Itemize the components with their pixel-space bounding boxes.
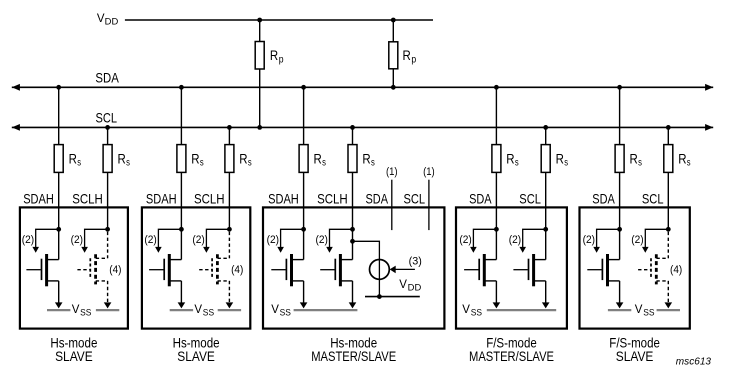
svg-text:(2): (2) <box>509 234 521 246</box>
label VSS device 3 <box>271 304 291 317</box>
transistor Q2 <box>77 232 107 303</box>
svg-text:SLAVE: SLAVE <box>177 348 215 364</box>
svg-text:V: V <box>462 304 470 316</box>
svg-text:s: s <box>77 157 81 169</box>
junction d3 SCLH / bus <box>350 125 355 130</box>
svg-text:SCL: SCL <box>96 110 118 126</box>
svg-text:SS: SS <box>203 307 214 317</box>
wire Rp2 top <box>392 20 394 42</box>
wire SDA bus <box>12 84 713 91</box>
svg-text:s: s <box>564 157 568 169</box>
box device 3 (Hs-mode master/slave) <box>263 207 444 328</box>
svg-text:R: R <box>630 151 638 167</box>
wire Rp2 bottom (joins SDA) <box>392 69 394 88</box>
resistor Rs (d4 SDA) <box>492 145 501 173</box>
resistor Rs (d5 SCL) <box>664 145 673 173</box>
pin label SCL <box>404 191 426 207</box>
label Rs (d5 SDA) <box>630 151 642 169</box>
box device 5 (F/S-mode slave) <box>580 207 690 328</box>
node SDA label <box>95 70 119 86</box>
svg-text:(2): (2) <box>144 234 156 246</box>
svg-text:DD: DD <box>408 282 422 292</box>
box device 4 (F/S-mode master/slave) <box>456 207 567 328</box>
arrow note (2) for Q9 <box>583 229 620 252</box>
resistor Rs (d3 SCLH) <box>348 145 357 173</box>
svg-text:p: p <box>411 54 416 66</box>
svg-text:V: V <box>194 304 202 316</box>
pin label SCL <box>519 191 541 207</box>
ground bar Q1 <box>47 309 70 311</box>
pin label SCL <box>642 191 664 207</box>
svg-text:SS: SS <box>471 307 482 317</box>
svg-text:R: R <box>362 151 370 167</box>
svg-text:SCL: SCL <box>404 191 426 207</box>
junction d1 SCLH / bus <box>105 125 110 130</box>
wire d4 SDA column upper <box>495 87 497 229</box>
wire d3 SCLH column upper <box>352 127 354 229</box>
ground bar device 3 (shared) <box>294 309 358 311</box>
wire branch to current source <box>353 241 380 296</box>
wire d3 SDAH column upper <box>303 87 305 229</box>
resistor Rp1 <box>255 42 264 70</box>
junction d3 SDAH / bus <box>301 85 306 90</box>
transistor Q4 <box>199 232 229 303</box>
wire Rp1 top <box>259 20 261 42</box>
junction d2 SDAH / bus <box>179 85 184 90</box>
svg-text:(4): (4) <box>231 264 243 276</box>
junction dot Q8 drain node <box>543 227 548 232</box>
svg-text:R: R <box>118 151 126 167</box>
label note (4) for Q2 <box>109 264 121 276</box>
svg-text:SDAH: SDAH <box>146 191 177 207</box>
svg-text:SCL: SCL <box>642 191 664 207</box>
arrow note (2) for Q7 <box>459 229 496 252</box>
junction dot Q3 drain node <box>179 227 184 232</box>
pin label SDA <box>469 191 492 207</box>
box device 1 (Hs-mode slave) <box>20 207 128 328</box>
svg-text:MASTER/SLAVE: MASTER/SLAVE <box>469 348 554 364</box>
arrow note (2) for Q2 <box>71 229 108 252</box>
svg-text:SDA: SDA <box>592 191 615 207</box>
node VDD label <box>97 13 119 27</box>
svg-text:s: s <box>638 157 642 169</box>
junction VDD / Rp1 <box>257 18 262 23</box>
label Rs (d2 SCLH) <box>239 151 251 169</box>
svg-text:R: R <box>556 151 564 167</box>
transistor Q7 <box>464 229 496 303</box>
svg-text:SDAH: SDAH <box>23 191 54 207</box>
wire VDD rail <box>125 19 433 21</box>
ground bar Q3 <box>170 309 193 311</box>
junction dot current-source branch <box>350 239 355 244</box>
wire d1 SDAH column upper <box>58 87 60 229</box>
svg-text:R: R <box>270 47 278 63</box>
junction VDD / Rp2 <box>391 18 396 23</box>
resistor Rs (d1 SCLH) <box>103 145 112 173</box>
ground arrow Q1 <box>55 302 63 308</box>
label note (1) over SCL stub <box>423 166 435 178</box>
svg-text:SS: SS <box>280 307 291 317</box>
resistor Rs (d4 SCL) <box>541 145 550 173</box>
svg-text:SDA: SDA <box>95 70 119 86</box>
svg-text:SCLH: SCLH <box>72 191 103 207</box>
label VSS device 5 <box>635 304 655 317</box>
label Rs (d3 SDAH) <box>314 151 326 169</box>
junction dot Q2 drain node <box>105 227 110 232</box>
svg-text:(1): (1) <box>423 166 435 178</box>
junction d5 SCL / bus <box>666 125 671 130</box>
svg-text:SDA: SDA <box>469 191 492 207</box>
svg-text:MASTER/SLAVE: MASTER/SLAVE <box>311 348 396 364</box>
svg-text:SDAH: SDAH <box>268 191 299 207</box>
arrow note (2) for Q10 <box>631 229 668 252</box>
ground arrow Q6 <box>349 302 357 308</box>
svg-text:s: s <box>371 157 375 169</box>
wire d4 SCL column upper <box>545 127 547 229</box>
svg-text:(2): (2) <box>267 234 279 246</box>
svg-text:R: R <box>69 151 77 167</box>
junction Rp1 / SCL <box>257 125 262 130</box>
label Rp2 <box>403 47 417 65</box>
resistor Rp2 <box>389 42 398 69</box>
label Rs (d4 SCL) <box>556 151 568 169</box>
caption Hs-mode SLAVE <box>173 335 220 365</box>
svg-text:SDA: SDA <box>366 191 389 207</box>
caption F/S-mode MASTER/SLAVE <box>469 335 554 365</box>
svg-text:V: V <box>399 279 407 291</box>
junction dot Q9 drain node <box>617 227 622 232</box>
ground arrow Q2 <box>104 302 112 308</box>
transistor Q8 <box>513 229 545 303</box>
svg-text:(2): (2) <box>22 234 34 246</box>
ground arrow Q8 <box>542 302 550 308</box>
label VSS device 4 <box>462 304 482 317</box>
svg-text:(2): (2) <box>631 234 643 246</box>
ground arrow Q5 <box>300 302 308 308</box>
wire d2 SCLH column upper <box>228 127 230 229</box>
svg-text:(1): (1) <box>386 166 398 178</box>
pin label SCLH <box>72 191 103 207</box>
svg-text:s: s <box>248 157 252 169</box>
transistor Q1 <box>26 229 58 303</box>
label Rs (d1 SCLH) <box>118 151 130 169</box>
ground bar Q10 <box>657 309 680 311</box>
resistor Rs (d2 SCLH) <box>225 145 234 173</box>
svg-text:(2): (2) <box>71 234 83 246</box>
svg-text:SCL: SCL <box>519 191 541 207</box>
pin label SDAH <box>268 191 299 207</box>
svg-text:(2): (2) <box>316 234 328 246</box>
resistor Rs (d1 SDAH) <box>54 145 63 173</box>
label Rs (d3 SCLH) <box>362 151 374 169</box>
junction dot Q5 drain node <box>301 227 306 232</box>
label VSS device 1 <box>72 304 92 317</box>
junction Rp2 / SDA <box>391 85 396 90</box>
label note (1) over SDA stub <box>386 166 398 178</box>
ground arrow Q3 <box>178 302 186 308</box>
pin label SDA <box>592 191 615 207</box>
junction dot Q10 drain node <box>666 227 671 232</box>
svg-text:SCLH: SCLH <box>194 191 225 207</box>
svg-text:SS: SS <box>643 307 654 317</box>
svg-text:(2): (2) <box>583 234 595 246</box>
junction dot Q1 drain node <box>56 227 61 232</box>
svg-text:SLAVE: SLAVE <box>616 348 654 364</box>
svg-text:R: R <box>239 151 247 167</box>
svg-text:p: p <box>279 54 284 66</box>
transistor Q10 <box>638 232 668 303</box>
wire d2 SDAH column upper <box>180 87 182 229</box>
label VSS device 2 <box>194 304 214 317</box>
arrow note (2) for Q6 <box>316 229 353 252</box>
svg-text:R: R <box>678 151 686 167</box>
svg-text:R: R <box>314 151 322 167</box>
node SCL label <box>96 110 118 126</box>
transistor Q6 <box>320 229 352 303</box>
svg-text:(2): (2) <box>459 234 471 246</box>
label figure id msc613 <box>676 355 711 367</box>
junction d4 SDA / bus <box>494 85 499 90</box>
arrow note (2) for Q4 <box>192 229 229 252</box>
wire VDD return rail of current source <box>365 296 420 298</box>
ground arrow Q7 <box>493 302 501 308</box>
pin label SCLH <box>317 191 348 207</box>
transistor Q3 <box>149 229 181 303</box>
wire d5 SDA column upper <box>619 87 621 229</box>
transistor Q9 <box>587 229 619 303</box>
wire d1 SCLH column upper <box>107 127 109 229</box>
label note (4) for Q4 <box>231 264 243 276</box>
ground arrow Q4 <box>226 302 234 308</box>
pin label SDAH <box>146 191 177 207</box>
junction d2 SCLH / bus <box>227 125 232 130</box>
svg-text:DD: DD <box>105 16 119 26</box>
label Rs (d1 SDAH) <box>69 151 81 169</box>
junction dot on VDD return rail <box>377 294 382 299</box>
junction d1 SDAH / bus <box>56 85 61 90</box>
caption F/S-mode SLAVE <box>609 335 660 365</box>
svg-text:SLAVE: SLAVE <box>55 348 93 364</box>
arrow note (2) for Q3 <box>144 229 181 252</box>
svg-text:s: s <box>687 157 691 169</box>
pin label SDAH <box>23 191 54 207</box>
ground bar device 4 (shared) <box>487 309 556 311</box>
arrow note (2) for Q5 <box>267 229 304 252</box>
svg-text:(4): (4) <box>670 264 682 276</box>
caption Hs-mode MASTER/SLAVE <box>311 335 396 365</box>
ground bar Q9 <box>608 309 631 311</box>
junction dot Q7 drain node <box>494 227 499 232</box>
svg-text:s: s <box>515 157 519 169</box>
svg-text:(4): (4) <box>109 264 121 276</box>
svg-text:V: V <box>635 304 643 316</box>
wire d5 SCL column upper <box>667 127 669 229</box>
label VDD (current source) <box>399 279 421 292</box>
box device 2 (Hs-mode slave) <box>142 207 250 328</box>
ground bar Q4 <box>218 309 241 311</box>
pin label SDA <box>366 191 389 207</box>
ground arrow Q9 <box>616 302 624 308</box>
svg-text:SS: SS <box>80 307 91 317</box>
wire stub SCL (unused pin, note 1) <box>428 180 430 230</box>
junction dot Q4 drain node <box>227 227 232 232</box>
svg-text:V: V <box>271 304 279 316</box>
junction d4 SCL / bus <box>543 125 548 130</box>
svg-text:SCLH: SCLH <box>317 191 348 207</box>
label Rp1 <box>270 47 284 65</box>
svg-text:V: V <box>97 13 105 25</box>
svg-text:s: s <box>200 157 204 169</box>
ground bar Q2 <box>96 309 119 311</box>
label note (4) for Q10 <box>670 264 682 276</box>
svg-text:msc613: msc613 <box>676 355 711 367</box>
svg-text:(3): (3) <box>409 256 422 268</box>
junction d5 SDA / bus <box>617 85 622 90</box>
svg-text:s: s <box>126 157 130 169</box>
arrow note (2) for Q1 <box>22 229 59 252</box>
resistor Rs (d5 SDA) <box>615 145 624 173</box>
resistor Rs (d2 SDAH) <box>177 145 186 173</box>
arrow note (3) into current source <box>390 256 422 274</box>
wire stub SDA (unused pin, note 1) <box>391 180 393 230</box>
label Rs (d2 SDAH) <box>191 151 203 169</box>
label Rs (d5 SCL) <box>678 151 690 169</box>
pin label SCLH <box>194 191 225 207</box>
ground arrow Q10 <box>665 302 673 308</box>
svg-text:V: V <box>72 304 80 316</box>
arrow note (2) for Q8 <box>509 229 546 252</box>
caption Hs-mode SLAVE <box>50 335 97 365</box>
wire Rp1 bottom (crosses SDA, joins SCL) <box>259 69 261 127</box>
current source U1 (circle) <box>370 260 390 280</box>
svg-text:s: s <box>322 157 326 169</box>
resistor Rs (d3 SDAH) <box>299 145 308 173</box>
svg-text:R: R <box>506 151 514 167</box>
svg-text:R: R <box>403 47 411 63</box>
wire SCL bus <box>12 124 713 131</box>
svg-text:R: R <box>191 151 199 167</box>
label Rs (d4 SDA) <box>506 151 518 169</box>
svg-text:(2): (2) <box>192 234 204 246</box>
junction dot Q6 drain node <box>350 227 355 232</box>
transistor Q5 <box>271 229 303 303</box>
